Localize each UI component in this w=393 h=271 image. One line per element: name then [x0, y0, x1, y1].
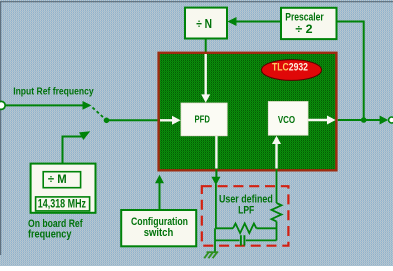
wire: LPF top horizontal	[216, 227, 233, 229]
ground	[204, 252, 218, 258]
VCO box	[268, 102, 308, 136]
wire: input ref line from left connector	[3, 104, 84, 106]
wire: LPF bottom horizontal left part	[215, 239, 240, 241]
user defined LPF dashed box	[202, 186, 289, 246]
svg-text:÷ M: ÷ M	[48, 172, 67, 186]
divide-by-M outer box	[31, 164, 96, 213]
arrowhead into LPF	[211, 177, 220, 185]
white wire: into PFD from left border	[160, 119, 173, 121]
wire: LPF bottom horizontal right part	[246, 239, 277, 241]
wire: LPF left vertical down	[214, 228, 216, 240]
wire: prescaler to divide-by-N	[232, 21, 281, 23]
white wire: VCO out to right border	[308, 119, 328, 121]
svg-text:LPF: LPF	[238, 204, 254, 216]
Prescaler box	[281, 8, 337, 39]
svg-text:PFD: PFD	[195, 115, 211, 126]
resistor R (horizontal)	[233, 224, 256, 234]
divide-by-M inner box	[43, 172, 80, 188]
switch dashed segment	[93, 108, 105, 119]
svg-text:÷ 2: ÷ 2	[295, 22, 312, 36]
white wire: up into VCO bottom	[275, 142, 277, 169]
arrowhead on-board ref toward junction	[79, 131, 90, 140]
input connector circle	[0, 101, 5, 109]
scan edge top	[0, 1, 393, 2]
wire: on-board ref up from divide-by-M box	[63, 137, 83, 165]
svg-text:switch: switch	[144, 227, 174, 239]
svg-text:VCO: VCO	[278, 115, 295, 126]
14,318 MHz box	[36, 197, 90, 211]
white wire: PFD bottom out	[215, 136, 217, 169]
svg-text:÷ N: ÷ N	[196, 16, 212, 31]
arrowhead into divide-by-N	[227, 17, 236, 26]
PFD box	[181, 103, 227, 136]
svg-text:frequency: frequency	[28, 228, 72, 240]
output connector circle	[389, 117, 393, 123]
Configuration switch box	[121, 210, 196, 246]
wire: ground lead	[214, 240, 216, 252]
svg-text:TLC2932: TLC2932	[272, 62, 308, 74]
scan edge left	[0, 2, 1, 255]
arrowhead output	[380, 116, 389, 125]
arrowhead input ref	[83, 101, 92, 110]
wire: PFD output down to LPF	[215, 170, 217, 178]
wire: VCO output outside green box	[338, 119, 382, 121]
wire: feedback vertical from output junction up to prescaler level	[337, 22, 364, 121]
resistor R (vertical, VCO branch)	[272, 203, 282, 221]
wire: configuration switch arrow up	[159, 182, 161, 210]
TLC2932 label ellipse	[262, 60, 322, 81]
TLC2932 green block	[159, 53, 337, 171]
capacitor C	[240, 235, 242, 245]
wire: divide-by-N down to green box	[205, 39, 207, 55]
svg-text:14,318 MHz: 14,318 MHz	[38, 197, 86, 210]
wire: junction to PFD (outside green box)	[107, 119, 160, 121]
wire: VCO input down from green box into LPF	[276, 170, 278, 204]
svg-text:Input Ref frequency: Input Ref frequency	[13, 86, 94, 97]
node: switch junction	[104, 118, 110, 124]
node: output junction	[361, 117, 367, 123]
white wire: from divide-by-N down into PFD	[204, 54, 206, 96]
divide-by-N box	[185, 8, 227, 39]
